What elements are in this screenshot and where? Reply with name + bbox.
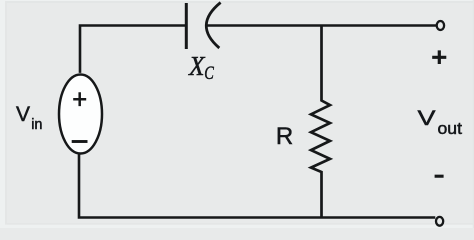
svg-text:V: V	[418, 106, 437, 130]
svg-text:V: V	[16, 103, 30, 126]
svg-text:C: C	[204, 63, 214, 84]
svg-text:X: X	[188, 50, 206, 81]
svg-text:R: R	[276, 123, 293, 150]
svg-text:in: in	[31, 117, 42, 133]
svg-text:out: out	[438, 120, 463, 138]
